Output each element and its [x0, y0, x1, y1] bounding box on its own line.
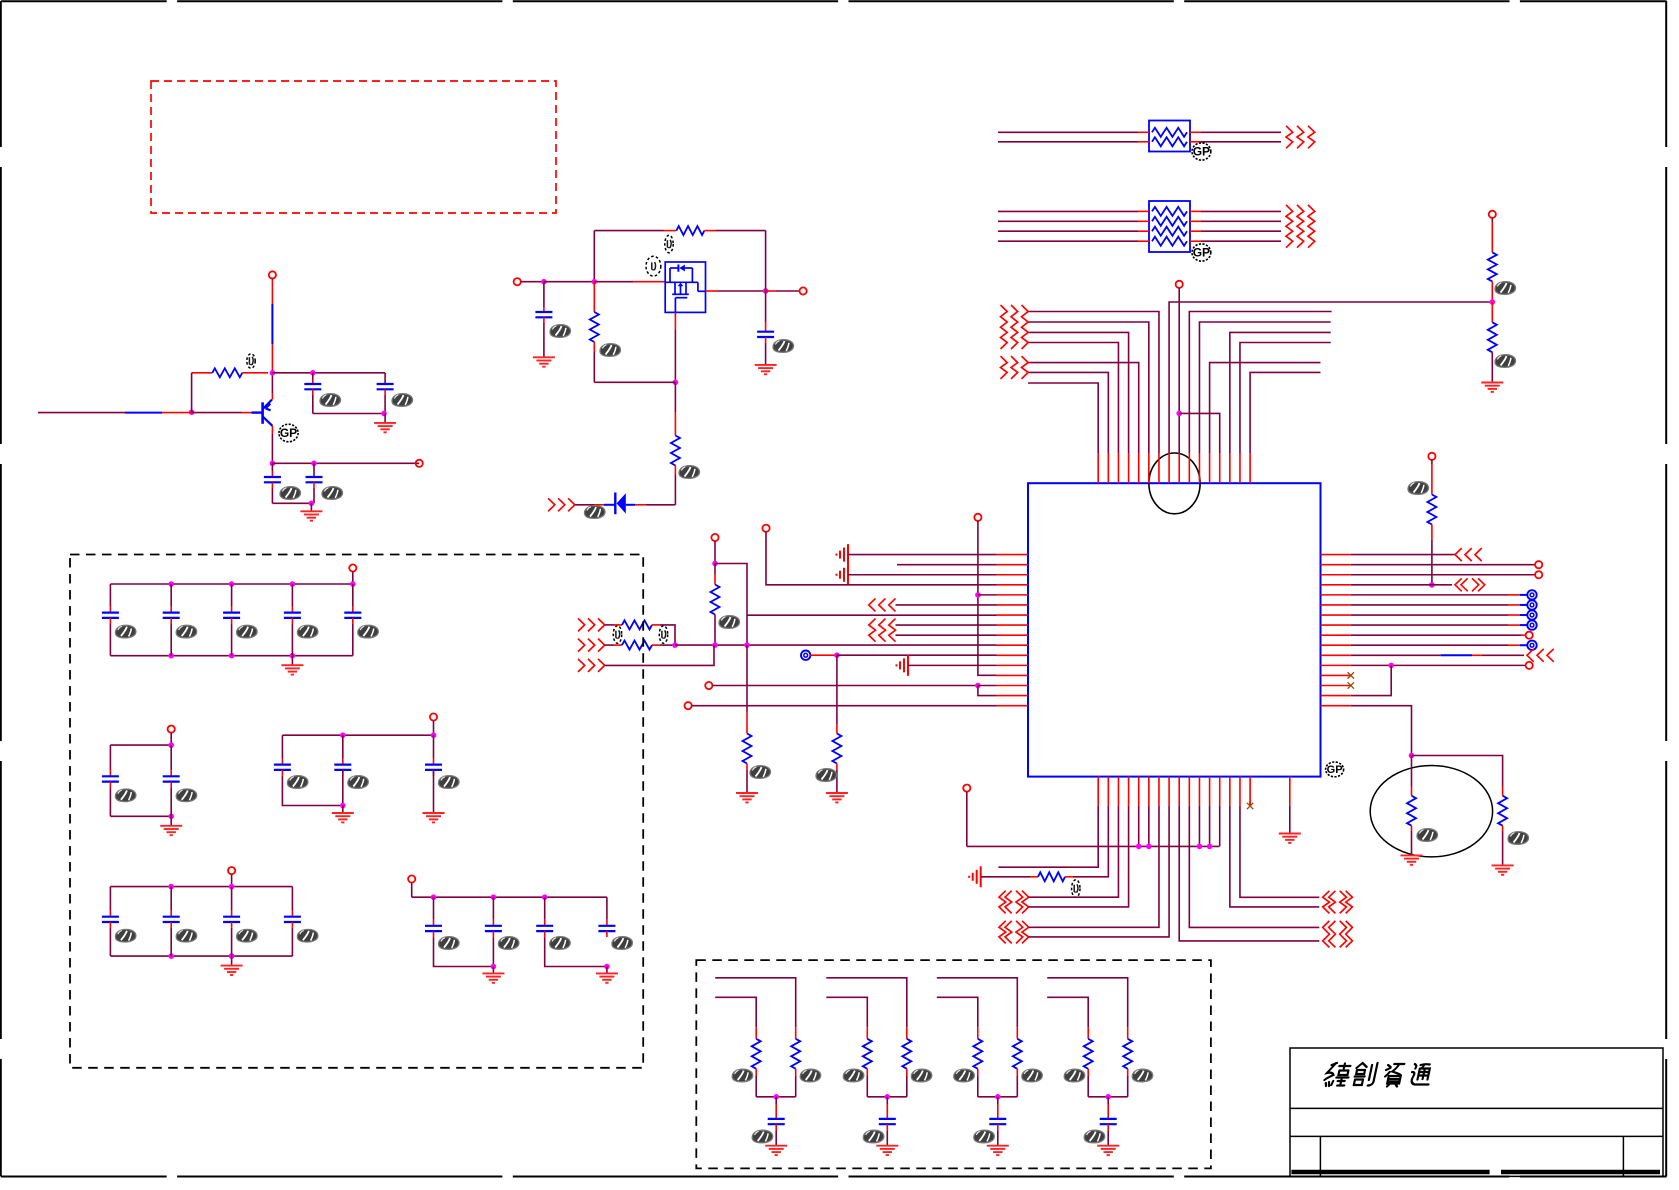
IC right pin 7 stub [1321, 614, 1351, 616]
wire bottom pin17 to ground [1289, 806, 1291, 834]
IC left pin 14 stub [997, 685, 1029, 687]
junction bottom pin12 [1207, 844, 1213, 850]
label C6 [773, 340, 794, 353]
black dashed box (decoupling caps) [70, 555, 643, 1068]
junction right pin16 node [1409, 753, 1415, 759]
label B1C1 [115, 625, 135, 638]
chassis ground symbol bottom [969, 866, 981, 887]
wire R9 top [1502, 787, 1504, 796]
resistor pack RP1 [1149, 121, 1190, 152]
wire cell3 input B [937, 997, 978, 1027]
wire right pin9 row [1351, 634, 1521, 636]
resistor R8 [1407, 796, 1416, 826]
label RN1 [613, 626, 621, 644]
wire B5 bottom rail 2 [545, 937, 607, 966]
IC bottom pin 16 stub [1249, 777, 1251, 806]
junction pullup node [1429, 582, 1435, 588]
terminal B5 [408, 875, 415, 882]
IC bottom pin16 no-connect [1249, 802, 1251, 806]
wire pullup top [1431, 460, 1433, 464]
IC right pin 12 stub [1321, 664, 1351, 666]
junction bottom pin5 [1136, 844, 1142, 850]
chassis ground symbol row1 [837, 544, 849, 565]
wire collector supply vertical [271, 278, 273, 281]
IC right pin 8 stub [1321, 624, 1351, 626]
IC left pin 6 stub [997, 604, 1029, 606]
label cell2 C [863, 1130, 884, 1143]
label cell2 RA [843, 1069, 864, 1082]
wire divider to ground [1491, 352, 1493, 382]
label R5 [1495, 282, 1516, 295]
IC top pin 13 stub [1219, 453, 1221, 483]
wire B5 top rail [412, 896, 607, 898]
terminal P7 [1535, 561, 1542, 568]
junction gate C5 [541, 279, 547, 285]
wire RP2 left 2 [998, 220, 1138, 222]
wire left pin5 row [978, 594, 997, 596]
red dashed annotation box [151, 81, 556, 213]
wire bottom bus [967, 845, 1220, 847]
IC left pin 5 stub [997, 594, 1029, 596]
capacitor C3 [271, 463, 273, 471]
resistor R3 (gate pulldown) [593, 282, 595, 312]
IC top pin 11 stub [1198, 453, 1200, 483]
label R3 [600, 344, 621, 357]
off-page chevrons network row1 [578, 618, 585, 631]
black ellipse annotation [1370, 766, 1492, 857]
wire B4 ground drop [231, 956, 233, 966]
ground (IC pin17) [1279, 834, 1301, 843]
label B4C2 [176, 929, 197, 942]
IC top pin 10 stub [1188, 453, 1190, 483]
wire source node down [674, 382, 676, 412]
wire gate input 2 [544, 281, 594, 283]
capacitor B5C3 [544, 897, 546, 920]
label C2 [392, 394, 413, 407]
junction B1 top rail x352 [350, 581, 356, 587]
wire cell3 bottom rail [978, 1096, 1018, 1098]
off-page chevrons RP2 [1286, 205, 1293, 248]
wire bottom cap rail C3-C4 [272, 502, 314, 504]
wire top pin2 row [1027, 372, 1109, 453]
wire top pin13 branch [1179, 413, 1220, 453]
label R4 [679, 466, 700, 479]
wire top pin15 row [1240, 343, 1331, 454]
junction ground node C3-C4 [309, 501, 315, 507]
wire bottom pin15 row [1240, 806, 1319, 898]
IC right pin 3 stub [1321, 574, 1351, 576]
junction B4 bottom rail x171 [168, 953, 174, 959]
wire RP2 left 3 [998, 230, 1138, 232]
IC left pin 1 stub [997, 554, 1029, 556]
wire right pin5 row [1351, 594, 1508, 596]
resistor R10 (P14 pulldown) [714, 564, 716, 575]
wire left pin15 row [978, 686, 997, 696]
wire RP2 left 4 [998, 240, 1138, 242]
junction B1 top rail x231 [229, 581, 235, 587]
connector circlet pin10 [1527, 641, 1536, 650]
wire bottom pin9 row [1179, 806, 1319, 941]
IC right pin 14 stub [1321, 685, 1351, 687]
junction bottom pin6 [1146, 844, 1152, 850]
terminal P12 [762, 525, 769, 532]
wire to ground 2 [310, 503, 312, 511]
wire top cap rail [272, 372, 385, 374]
label R2 [665, 235, 673, 253]
label cell3 RA [954, 1069, 975, 1082]
junction left pin14 [975, 683, 981, 689]
terminal B2 [168, 726, 175, 733]
IC bottom pin 10 stub [1188, 777, 1190, 806]
wire cell2 input A [826, 978, 907, 1028]
IC right pin 6 stub [1321, 604, 1351, 606]
capacitor B2C1 [109, 745, 111, 770]
junction B2 top rail x171 [168, 742, 174, 748]
label C4 [322, 487, 343, 500]
off-page chevrons IC top-left group1 [1001, 305, 1008, 349]
junction cap rail C1 [310, 370, 316, 376]
wire network row2 right [652, 644, 660, 646]
ground (cell3) [987, 1146, 1009, 1155]
label C5 [550, 325, 571, 338]
IC top pin 9 stub [1178, 453, 1180, 483]
capacitor C2 [384, 373, 386, 384]
wire bottom pin5 drop [1138, 806, 1140, 847]
bidir chevrons bottom-right group1 [1323, 891, 1330, 914]
diode D1 [615, 493, 626, 515]
wire RP2 right 2 [1190, 220, 1201, 222]
junction ground node C2 [381, 411, 387, 417]
IC top pin 6 stub [1148, 453, 1150, 483]
IC bottom pin 14 stub [1229, 777, 1231, 806]
wire right pin3 row [1351, 574, 1535, 576]
wire bottom cap rail C1-C2 [313, 413, 385, 415]
terminal P15 [705, 682, 712, 689]
wire B1 ground drop [291, 656, 293, 666]
wire B3 top rail [282, 734, 433, 736]
capacitor B5C2 [492, 897, 494, 920]
label B1C5 [358, 625, 379, 638]
ground (R8) [1401, 855, 1423, 864]
RP2 element 3 [1152, 227, 1187, 236]
IC top pin 3 stub [1117, 453, 1119, 483]
IC right pin14 no-connect [1348, 682, 1354, 688]
IC left pin 15 stub [997, 695, 1029, 697]
wire R8 top [1411, 756, 1413, 787]
wire B4 top rail [110, 886, 292, 888]
IC bottom pin 6 stub [1148, 777, 1150, 806]
wire B2 top rail [110, 744, 171, 746]
resistor R4 (source series) [671, 436, 680, 466]
resistor cell2 RA [866, 1027, 868, 1039]
label D1 [585, 506, 606, 519]
wire top pin7 row [1027, 312, 1159, 454]
wire B4 terminal drop [231, 874, 233, 886]
label B1C2 [176, 625, 197, 638]
capacitor C5 [543, 282, 545, 307]
IC top pin 4 stub [1128, 453, 1130, 483]
off-page chevrons right pin11 [1527, 649, 1534, 662]
junction cell3 [995, 1094, 1001, 1100]
ground (C5) [533, 357, 555, 366]
wire top pin5 row [1027, 363, 1139, 453]
label cell2 RB [911, 1069, 932, 1082]
IC bottom pin17 stub [1289, 777, 1291, 806]
wire top pin11 row [1199, 322, 1330, 453]
ground (B3 left) [332, 813, 354, 822]
connector circlet pin7 [1527, 610, 1536, 619]
junction drain node [763, 288, 769, 294]
wire gate input [521, 281, 544, 283]
wire bottom pin12 drop [1209, 806, 1211, 847]
wire R9 to ground [1502, 826, 1504, 831]
RP2 element 1 [1152, 207, 1187, 216]
resistor R2 (feedback top) [594, 230, 664, 232]
wire P14 branch right [715, 564, 747, 646]
wire RP2 right 3 [1190, 230, 1201, 232]
wire bottom pin1 row [998, 806, 1098, 868]
label B3C3 [439, 776, 460, 789]
IC bottom pin 1 stub [1097, 777, 1099, 806]
wire top pin4 row [1027, 332, 1129, 453]
IC left pin 16 stub [997, 705, 1029, 707]
junction B5 top rail x493 [491, 894, 497, 900]
wire B2 ground drop [170, 816, 172, 826]
wire divider mid [1491, 281, 1493, 302]
junction B4 top rail x231 [229, 884, 235, 890]
junction B3 top rail terminal [431, 732, 437, 738]
wire RP2 left 1 [998, 210, 1138, 212]
junction gate R3 [592, 279, 598, 285]
wire top pin12 row [1210, 363, 1321, 453]
junction B5 top rail x544 [542, 894, 548, 900]
label B5C4 [612, 937, 633, 950]
wire top pin14 row [1230, 332, 1331, 453]
ground (cell4) [1097, 1146, 1119, 1155]
capacitor B5C4 [606, 897, 608, 920]
IC bottom pin 8 stub [1168, 777, 1170, 806]
wire network row2 left [605, 644, 614, 646]
wire right pin4 row [1351, 584, 1432, 586]
IC left pin 10 stub [997, 644, 1029, 646]
wire terminal P13 vertical [978, 521, 997, 675]
junction base-resistor node [189, 409, 195, 415]
wire RP1 left 2 [998, 141, 1138, 143]
wire resistor left leg [191, 373, 193, 412]
wire left pin9 row [896, 634, 997, 636]
junction B1 top rail x292 [290, 581, 296, 587]
wire cell3 input A [937, 978, 1018, 1028]
capacitor B3C3 [433, 735, 435, 758]
svg-text:GP: GP [1193, 245, 1210, 259]
junction emitter rail C4 [311, 461, 317, 467]
ground (cell1) [765, 1146, 787, 1155]
resistor RN1 [622, 620, 652, 629]
wire B5 gnd drop 1 [492, 967, 494, 974]
wire top pin1 row [1028, 383, 1098, 453]
junction left pin5 [975, 592, 981, 598]
terminal P5 (IC top supply) [1176, 281, 1183, 288]
IC left pin 7 stub [997, 614, 1029, 616]
resistor R9 [1498, 796, 1507, 826]
wire bottom pin6 drop [1148, 806, 1150, 847]
capacitor B4C4 [291, 887, 293, 911]
IC bottom pin 7 stub [1158, 777, 1160, 806]
ground (C1 C2) [374, 423, 396, 432]
IC top pin 2 stub [1107, 453, 1109, 483]
wire divider top [1491, 218, 1493, 222]
capacitor C6 [765, 291, 767, 322]
bidir chevrons bottom-left group1 [999, 891, 1006, 914]
junction network node B [712, 642, 718, 648]
connector circlet left [801, 651, 810, 660]
off-page chevrons right pin1 [1455, 548, 1462, 561]
label B1C3 [237, 625, 258, 638]
off-page chevrons (diode input) [548, 498, 555, 511]
label cell4 RB [1132, 1069, 1153, 1082]
label C1 [320, 394, 341, 407]
chassis ground symbol row3 [837, 564, 849, 585]
label R10 [719, 616, 740, 629]
junction circlet node [834, 652, 840, 658]
wire bottom pin7 row [1029, 806, 1159, 928]
IC top pin 7 stub [1158, 453, 1160, 483]
wire left pin14 row b [978, 685, 997, 687]
bidir chevrons bottom-left group2 [999, 921, 1006, 944]
wire cell1 bottom rail [756, 1096, 796, 1098]
terminal B3 [430, 713, 437, 720]
transistor Q1 (PNP) [263, 400, 273, 426]
IC bottom pin 2 stub [1107, 777, 1109, 806]
wire cell4 input B [1047, 997, 1088, 1027]
wire base input [38, 412, 125, 414]
junction network node C [744, 642, 750, 648]
wire RP2 right 1 [1190, 210, 1201, 212]
connector circlet pin8 [1527, 620, 1536, 629]
junction cell2 [885, 1094, 891, 1100]
off-page chevrons IC top-left group2 [1001, 356, 1008, 379]
junction emitter node [270, 461, 276, 467]
IC bottom pin 11 stub [1198, 777, 1200, 806]
wire B4 bottom rail [110, 955, 292, 957]
IC left pin 4 stub [997, 584, 1029, 586]
junction right pin12 [1388, 663, 1394, 669]
wire right pin10 row [1351, 644, 1508, 646]
IC top pin 8 stub [1168, 453, 1170, 483]
ground (B3 right) [423, 813, 445, 822]
resistor cell3 RB [1016, 1027, 1018, 1039]
resistor pack RP2 [1149, 201, 1190, 252]
ground (B4) [221, 966, 243, 975]
wire B1 top rail [110, 583, 352, 585]
terminal P8 [1535, 571, 1542, 578]
ground (B5 left) [482, 973, 504, 982]
wire feedback right vertical [765, 231, 767, 291]
IC right pin13 no-connect [1348, 672, 1354, 678]
junction B5 gnd node 2 [604, 964, 610, 970]
wire top pin6 row [1027, 322, 1149, 453]
junction top pin9 branch [1176, 411, 1182, 417]
wire bottom pin10 row [1189, 806, 1319, 928]
wire emitter rail [272, 462, 419, 464]
IC left pin 8 stub [997, 624, 1029, 626]
label R8 [1417, 829, 1438, 842]
label R1 [247, 354, 255, 368]
label B3C2 [348, 776, 369, 789]
label R6 [1495, 355, 1516, 368]
IC right pin 5 stub [1321, 594, 1351, 596]
label cell3 C [974, 1130, 995, 1143]
label GP Q1 [279, 424, 298, 442]
capacitor B3C1 [281, 735, 283, 758]
wire bottom pin14 row [1230, 806, 1319, 907]
resistor cell1 RA [755, 1027, 757, 1039]
off-page chevrons network row3 [578, 659, 585, 672]
IC right pin 15 stub [1321, 695, 1351, 697]
wire left pin3 row [848, 574, 997, 576]
label B5C3 [550, 937, 571, 950]
resistor R6 (divider lower) [1488, 322, 1497, 352]
company logo text (CJK strokes) [1323, 1063, 1433, 1087]
IC bottom pin 5 stub [1138, 777, 1140, 806]
IC left pin 12 stub [997, 664, 1029, 666]
resistor cell1 RB [795, 1027, 797, 1039]
ground (C6) [755, 365, 777, 374]
ground (cell2) [876, 1146, 898, 1155]
label B4C3 [237, 929, 258, 942]
IC right pin 11 stub [1321, 654, 1351, 656]
IC left pin 9 stub [997, 634, 1029, 636]
wire pullup bottom [1431, 525, 1433, 541]
junction bottom pin11 [1197, 844, 1203, 850]
wire R3 to source node [594, 381, 675, 383]
junction B3 top rail [340, 732, 346, 738]
resistor cell4 RA [1087, 1027, 1089, 1039]
capacitor C4 [313, 463, 315, 477]
IC right pin 16 stub [1321, 705, 1351, 707]
bidir chevrons bottom-right group2 [1323, 921, 1330, 948]
svg-text:GP: GP [1327, 764, 1343, 776]
wire RP2 right 4 [1190, 240, 1201, 242]
label cell3 RB [1022, 1069, 1043, 1082]
junction source-R3 node [673, 380, 679, 386]
resistor cell3 RA [977, 1027, 979, 1039]
capacitor B1C5 [352, 584, 354, 607]
IC bottom pin 12 stub [1209, 777, 1211, 806]
junction network node A [672, 642, 678, 648]
wire right pin16 row [1351, 706, 1412, 756]
wire left pin7 row [747, 614, 997, 616]
wire bottom pin2 row left [981, 876, 1030, 878]
wire B3 gnd drop [342, 806, 344, 814]
junction B1 top rail x171 [168, 581, 174, 587]
capacitor B1C4 [291, 584, 293, 607]
label R13 [1072, 880, 1080, 898]
RP2 element 2 [1152, 217, 1187, 226]
off-page chevrons left pins8-9 [869, 619, 876, 642]
junction B5 gnd node 1 [491, 964, 497, 970]
wire left pin16 row [692, 705, 997, 707]
label C3 [280, 487, 301, 500]
resistor R11 (node C pulldown) [746, 645, 748, 712]
chassis ground symbol row12 [897, 655, 909, 676]
wire B1 bottom rail [110, 655, 352, 657]
junction P14 node [712, 561, 718, 567]
wire top pin3 row [1027, 343, 1119, 454]
title block [1290, 1048, 1663, 1176]
terminal P16 [685, 702, 692, 709]
label R12 [816, 769, 837, 782]
